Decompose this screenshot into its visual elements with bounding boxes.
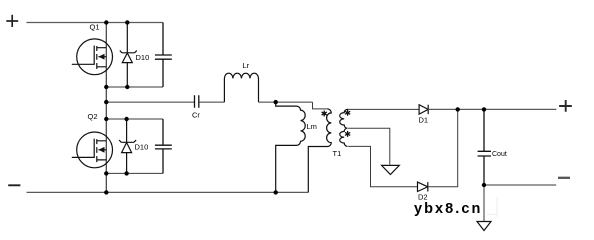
svg-text:Cr: Cr bbox=[192, 111, 200, 120]
wire mid line to Cr bbox=[106, 101, 194, 103]
inductor Lr bbox=[224, 73, 258, 102]
svg-text:Q2: Q2 bbox=[88, 112, 98, 121]
wire Lr to node bbox=[259, 101, 313, 103]
terminal - (output) bbox=[558, 177, 570, 179]
terminal - (input negative) bbox=[8, 184, 20, 186]
svg-text:T1: T1 bbox=[333, 149, 342, 158]
transistor Q2 bbox=[72, 132, 113, 168]
wire D2 to rail bbox=[428, 109, 458, 186]
wire Q2 network bottom bbox=[106, 172, 163, 174]
wire half-bridge vertical bbox=[105, 23, 107, 193]
svg-text:Cout: Cout bbox=[492, 151, 507, 158]
transformer T1 secondary winding 2 bbox=[340, 128, 348, 146]
capacitor Cout bbox=[478, 109, 491, 185]
inductor Lm bbox=[276, 102, 306, 192]
svg-text:D10: D10 bbox=[136, 53, 150, 62]
diode D2 bbox=[418, 182, 428, 191]
svg-text:Q1: Q1 bbox=[90, 23, 100, 32]
svg-text:D10: D10 bbox=[135, 143, 149, 152]
capacitor Cr bbox=[195, 95, 199, 108]
wire bottom rail bbox=[27, 191, 309, 193]
svg-text:ybx8.cn: ybx8.cn bbox=[414, 201, 482, 217]
wire Q1 network bottom bbox=[106, 86, 163, 88]
polarity dot primary bbox=[322, 111, 327, 117]
capacitor across Q2 bbox=[155, 119, 172, 173]
terminal + (input positive) bbox=[6, 15, 18, 27]
wire secondary top to D1 bbox=[348, 108, 419, 110]
wire Cout to ground bbox=[483, 185, 485, 222]
wire center tap bbox=[348, 128, 390, 164]
diode D10 (lower, body diode of Q2) bbox=[119, 119, 136, 173]
svg-text:Lr: Lr bbox=[243, 61, 250, 70]
wire D1 to + terminal bbox=[428, 108, 556, 110]
polarity dot secondary 1 bbox=[345, 110, 350, 116]
svg-text:Lm: Lm bbox=[307, 122, 317, 131]
wire secondary bottom to D2 bbox=[348, 146, 417, 186]
terminal + (output) bbox=[559, 100, 572, 112]
svg-text:D1: D1 bbox=[419, 116, 429, 125]
wire node to primary bbox=[313, 102, 328, 109]
diode D1 bbox=[419, 105, 428, 114]
transformer T1 primary winding bbox=[308, 109, 331, 192]
polarity dot secondary 2 bbox=[345, 131, 350, 137]
wire Cr to Lr bbox=[199, 101, 224, 103]
transistor Q1 bbox=[72, 39, 113, 75]
wire top rail bbox=[27, 22, 164, 24]
watermark ghost bbox=[496, 197, 498, 217]
ground (center tap) bbox=[382, 165, 400, 174]
ground (output) bbox=[477, 222, 491, 231]
wire - output bbox=[484, 184, 556, 186]
wire Q2 network top bbox=[106, 118, 163, 120]
diode D10 (upper, body diode of Q1) bbox=[120, 23, 137, 88]
capacitor across Q1 bbox=[155, 23, 172, 88]
transformer T1 secondary winding 1 bbox=[340, 109, 349, 128]
